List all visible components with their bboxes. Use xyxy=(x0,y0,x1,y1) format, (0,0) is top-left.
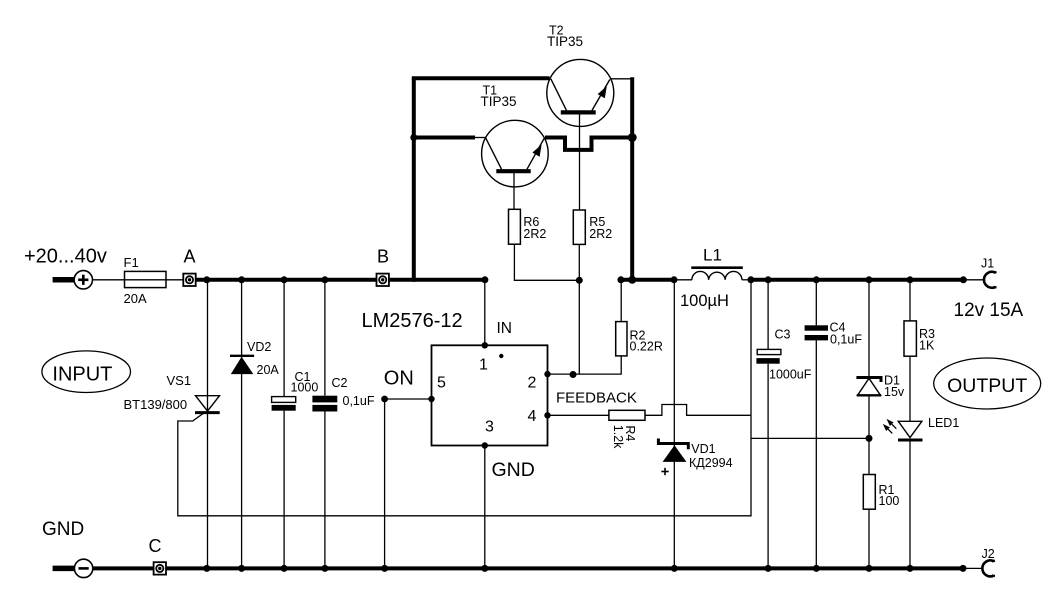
svg-text:IN: IN xyxy=(497,320,513,337)
junction D1-R1-gate node xyxy=(866,435,873,442)
pin 4 dot xyxy=(544,412,550,418)
left thick vertical wire xyxy=(412,78,416,281)
svg-text:1: 1 xyxy=(479,357,488,374)
pin 2 wire xyxy=(548,356,622,374)
pin 1 indicator dot xyxy=(499,354,503,358)
svg-text:5: 5 xyxy=(437,375,446,392)
ON vertical wire xyxy=(384,399,386,568)
junction VS1-top rail xyxy=(203,276,210,283)
svg-text:TIP35: TIP35 xyxy=(547,34,583,49)
svg-text:1000uF: 1000uF xyxy=(769,368,812,382)
junction ON-bottom rail xyxy=(381,565,388,572)
svg-text:ON: ON xyxy=(384,368,414,390)
junction C3-rail xyxy=(765,276,772,283)
connector J1 xyxy=(984,272,995,288)
junction ON node xyxy=(381,396,388,403)
pin 5 wire xyxy=(385,398,432,400)
svg-text:OUTPUT: OUTPUT xyxy=(947,375,1027,397)
svg-text:12v 15A: 12v 15A xyxy=(954,300,1024,321)
junction VD2-top rail xyxy=(238,276,245,283)
svg-text:1K: 1K xyxy=(919,339,935,353)
resistor R5 xyxy=(573,210,585,244)
junction C3-bottom rail xyxy=(765,565,772,572)
svg-text:2R2: 2R2 xyxy=(589,227,612,241)
svg-text:4: 4 xyxy=(528,408,537,425)
junction sense wire-rail xyxy=(747,276,754,283)
resistor R3 xyxy=(904,282,916,422)
pin 5 dot xyxy=(428,396,434,402)
junction C4-rail xyxy=(813,276,820,283)
svg-text:1.2k: 1.2k xyxy=(611,425,625,449)
resistor R1 xyxy=(863,475,875,510)
connector J2 xyxy=(982,560,993,576)
resistor R6 xyxy=(509,209,521,244)
node A square xyxy=(183,274,195,286)
svg-text:C: C xyxy=(149,536,162,556)
wire L1 right xyxy=(742,279,752,281)
svg-text:100: 100 xyxy=(879,494,900,508)
top thick horizontal wire xyxy=(412,76,550,80)
svg-text:LED1: LED1 xyxy=(928,416,959,430)
T2 base lead xyxy=(579,114,581,211)
junction LED1-bottom rail xyxy=(907,565,914,572)
svg-text:0,1uF: 0,1uF xyxy=(830,333,862,347)
LED1 xyxy=(883,419,923,569)
wire T2 emitter to right vertical xyxy=(611,78,634,80)
junction VS1-bottom rail xyxy=(203,565,210,572)
junction VD1-bottom rail xyxy=(671,565,678,572)
pin 2 dot xyxy=(544,371,550,377)
junction C1-top rail xyxy=(281,276,288,283)
svg-text:КД2994: КД2994 xyxy=(689,456,733,470)
svg-text:FEEDBACK: FEEDBACK xyxy=(556,390,637,407)
T1 base lead xyxy=(513,173,515,210)
battery plus terminal xyxy=(53,271,93,289)
pin 3 wire xyxy=(484,446,486,569)
pin 3 dot xyxy=(482,442,488,448)
junction left vertical-middle wire xyxy=(410,134,417,141)
svg-text:2R2: 2R2 xyxy=(523,227,546,241)
junction C1-bottom rail xyxy=(281,565,288,572)
junction VD2-bottom rail xyxy=(238,565,245,572)
svg-text:INPUT: INPUT xyxy=(52,364,112,386)
diode VD1 xyxy=(658,282,688,569)
svg-text:GND: GND xyxy=(492,459,535,481)
svg-text:C3: C3 xyxy=(775,328,791,342)
junction J1-rail xyxy=(960,276,967,283)
wire to J2 xyxy=(963,567,983,569)
output sense vertical + gate line to VS1 xyxy=(178,282,751,516)
svg-text:15v: 15v xyxy=(884,385,905,399)
svg-text:LM2576-12: LM2576-12 xyxy=(362,310,463,332)
svg-text:TIP35: TIP35 xyxy=(481,94,517,109)
svg-text:100µH: 100µH xyxy=(680,292,729,310)
svg-text:GND: GND xyxy=(42,519,84,540)
INPUT ellipse xyxy=(42,351,131,393)
resistor R4 xyxy=(609,410,645,420)
pin 1 wire xyxy=(484,282,486,346)
svg-text:3: 3 xyxy=(485,419,494,436)
junction emitter wire-rail xyxy=(628,276,636,284)
R6 bottom lead + connector to R5 xyxy=(514,244,579,280)
junction C2-top rail xyxy=(321,276,328,283)
capacitor C1 xyxy=(272,282,296,569)
OUTPUT ellipse xyxy=(934,358,1041,409)
svg-text:0.22R: 0.22R xyxy=(630,340,663,354)
svg-text:VD1: VD1 xyxy=(691,442,715,456)
junction R6-R5 node xyxy=(576,277,583,284)
junction R1-bottom rail xyxy=(866,565,873,572)
zener D1 xyxy=(856,282,881,475)
junction zigzag-right vertical xyxy=(628,133,637,142)
junction IN pin1-rail xyxy=(481,276,488,283)
right thick vertical wire xyxy=(630,77,634,282)
svg-text:L1: L1 xyxy=(703,246,722,265)
branch to zener junction xyxy=(751,437,869,439)
IC LM2576 box xyxy=(432,345,548,445)
junction C4-bottom rail xyxy=(813,565,820,572)
junction pin2 line xyxy=(570,371,577,378)
top rail middle segment xyxy=(619,278,676,282)
middle thick horizontal wire xyxy=(412,136,475,140)
diode VD2 xyxy=(230,282,254,569)
R2 top lead xyxy=(620,282,622,322)
junction J2-bottom rail xyxy=(960,565,967,572)
transistor T1 xyxy=(482,120,549,187)
svg-text:VS1: VS1 xyxy=(167,373,192,388)
svg-text:B: B xyxy=(377,247,389,267)
svg-text:C2: C2 xyxy=(332,376,348,390)
thyristor VS1 xyxy=(195,282,220,569)
svg-text:BT139/800: BT139/800 xyxy=(124,397,188,412)
junction VD1-rail xyxy=(671,276,678,283)
plus mark VD1 xyxy=(661,468,668,475)
junction pin3-bottom rail xyxy=(481,565,488,572)
transistor T2 xyxy=(547,59,614,126)
capacitor C2 xyxy=(312,282,337,569)
svg-text:20A: 20A xyxy=(124,291,147,306)
feedback wire with bridge over VD1 xyxy=(645,405,751,416)
node B square xyxy=(377,274,389,286)
junction R3-rail xyxy=(907,276,914,283)
svg-text:J1: J1 xyxy=(981,257,994,271)
junction D1-rail xyxy=(866,276,873,283)
wire battery to fuse to node A xyxy=(93,279,184,281)
svg-text:A: A xyxy=(184,247,196,267)
svg-text:+20...40v: +20...40v xyxy=(24,246,107,268)
capacitor C3 xyxy=(756,282,781,569)
node C square xyxy=(154,562,166,574)
wire thin to T1 collector side xyxy=(474,137,487,139)
bottom rail main wire xyxy=(93,566,963,570)
svg-text:1000: 1000 xyxy=(291,381,319,395)
gnd terminal stub wire xyxy=(53,566,74,572)
top rail right segment xyxy=(750,278,963,282)
svg-text:J2: J2 xyxy=(982,547,995,561)
resistor R2 xyxy=(616,322,627,356)
svg-text:0,1uF: 0,1uF xyxy=(343,394,375,408)
junction R2-rail xyxy=(617,276,624,283)
emitter zigzag thick wire xyxy=(545,138,635,150)
junction C2-bottom rail xyxy=(321,565,328,572)
top rail left segment xyxy=(196,278,487,282)
svg-text:2: 2 xyxy=(528,375,537,392)
wire to L1 left xyxy=(674,279,692,281)
svg-text:20A: 20A xyxy=(257,363,280,377)
fuse F1 xyxy=(125,271,167,287)
R5 bottom lead xyxy=(578,244,580,374)
wire to J1 xyxy=(963,279,983,281)
gnd minus terminal xyxy=(74,559,92,577)
capacitor C4 xyxy=(805,282,828,569)
svg-text:VD2: VD2 xyxy=(247,340,271,354)
pin 4 feedback wire xyxy=(548,414,609,416)
inductor L1 xyxy=(691,268,743,280)
pin 1 dot xyxy=(482,342,488,348)
svg-text:F1: F1 xyxy=(124,255,139,270)
